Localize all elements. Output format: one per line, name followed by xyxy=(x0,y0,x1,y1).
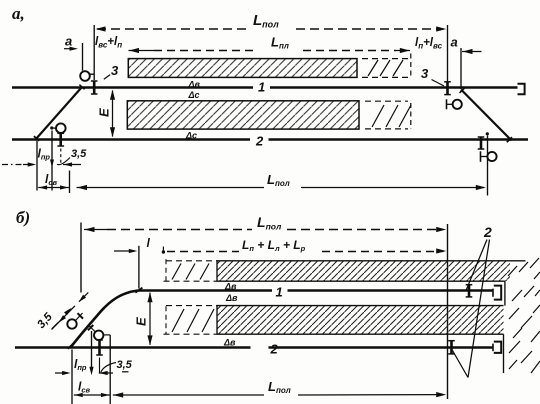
svg-text:a: a xyxy=(451,35,458,50)
svg-text:2: 2 xyxy=(483,224,492,240)
svg-text:1: 1 xyxy=(276,285,283,300)
svg-text:3: 3 xyxy=(111,63,119,78)
svg-text:Δв: Δв xyxy=(224,282,237,292)
svg-text:Δс: Δс xyxy=(188,90,200,100)
svg-text:a: a xyxy=(65,34,72,49)
svg-text:Δв: Δв xyxy=(188,80,201,90)
svg-text:2: 2 xyxy=(255,134,264,149)
svg-text:E: E xyxy=(134,317,149,326)
svg-text:Δв: Δв xyxy=(223,337,236,347)
svg-text:а,: а, xyxy=(12,4,25,23)
svg-text:E: E xyxy=(97,108,112,117)
svg-text:1: 1 xyxy=(258,80,265,95)
svg-text:Δв: Δв xyxy=(225,293,238,303)
svg-text:3,5: 3,5 xyxy=(117,359,133,371)
svg-text:2: 2 xyxy=(270,342,279,357)
svg-text:Δс: Δс xyxy=(185,130,197,140)
svg-text:б): б) xyxy=(16,208,30,227)
svg-text:3: 3 xyxy=(421,66,429,81)
svg-text:3,5: 3,5 xyxy=(71,148,87,160)
